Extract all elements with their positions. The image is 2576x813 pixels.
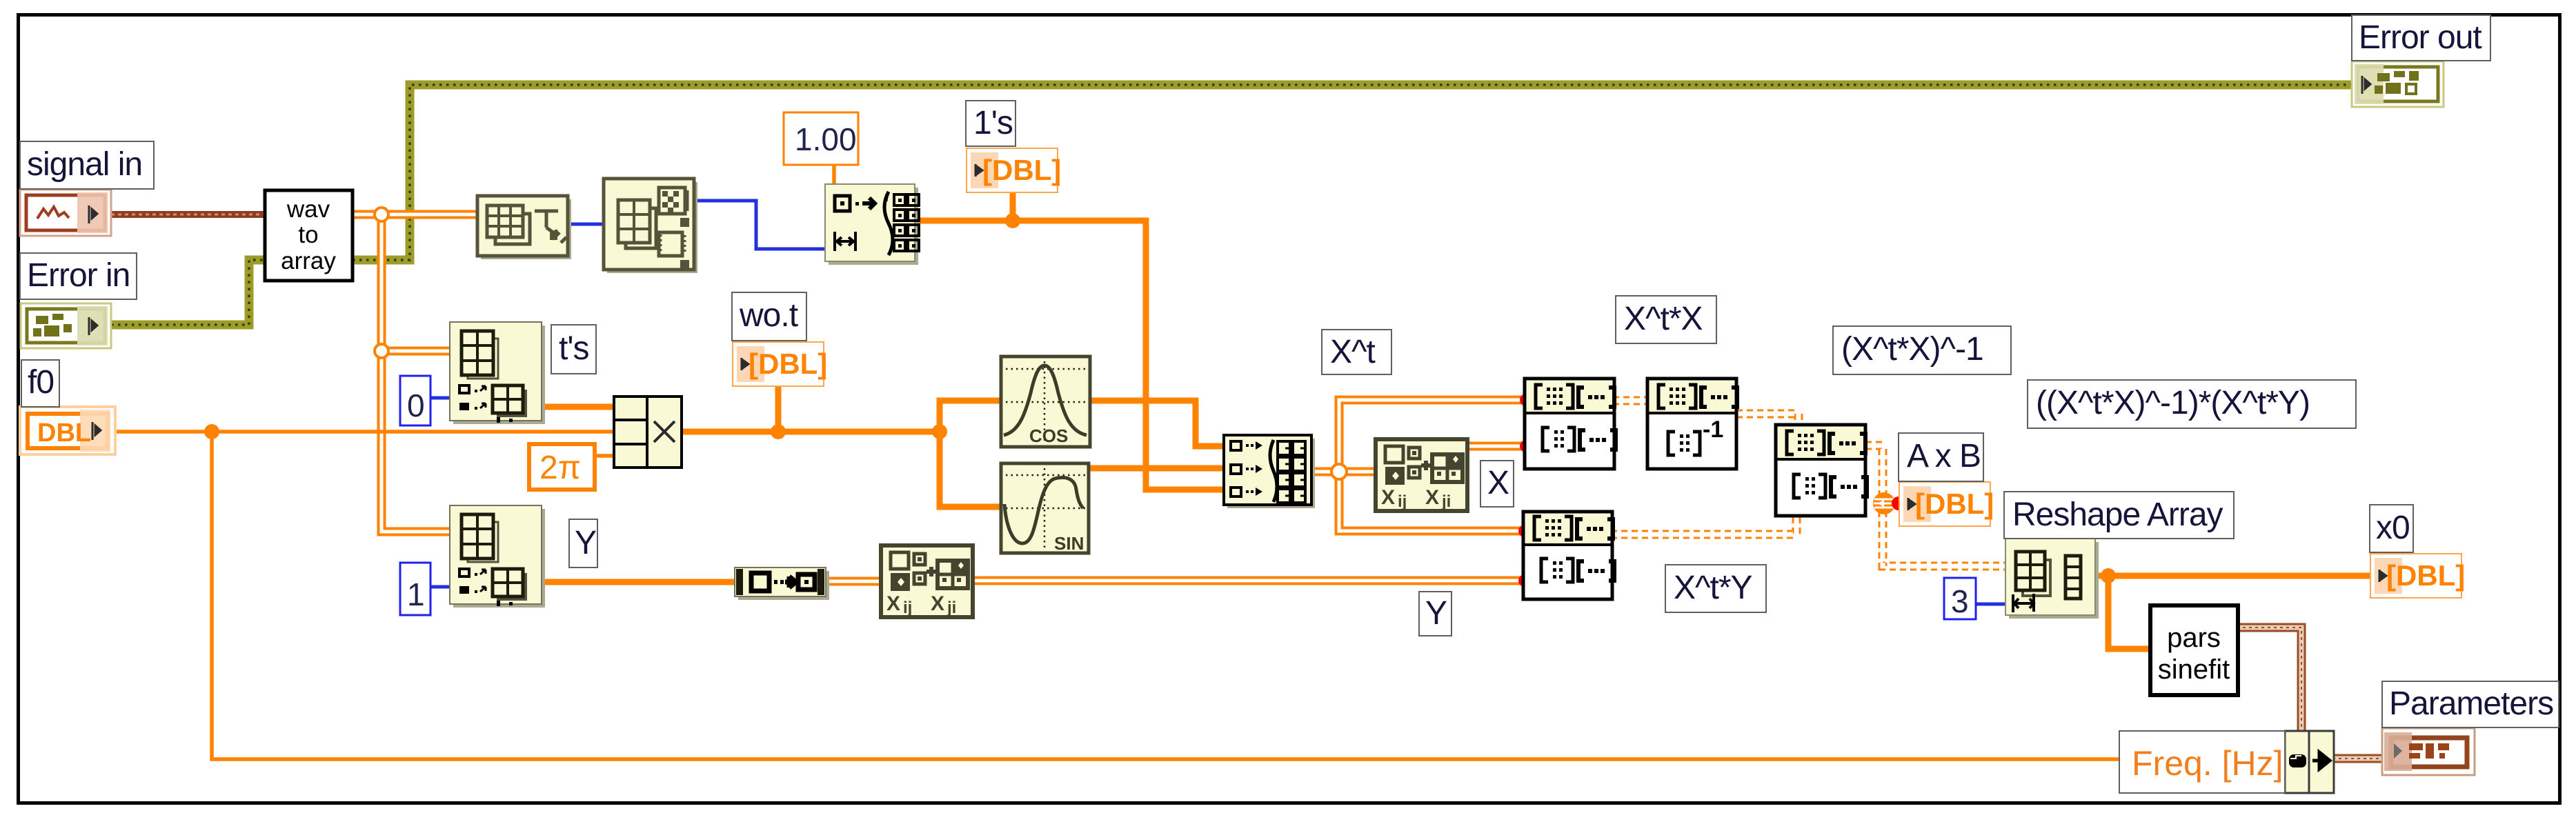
node SIN icon [1001, 463, 1089, 554]
label X^t*X [1616, 296, 1716, 343]
svg-text:Reshape Array: Reshape Array [2012, 496, 2223, 533]
wire matrix: final multiply output to A x B indicator and Reshape Array [1865, 445, 2005, 566]
wire stem 1's indicator [1010, 192, 1016, 222]
node Build Array [1224, 435, 1315, 508]
svg-text:Error in: Error in [27, 257, 130, 294]
svg-text:signal in: signal in [27, 146, 142, 183]
node A x B multiply (X^t*Y) [1523, 512, 1614, 599]
terminal 1's [DBL] indicator [967, 148, 1061, 192]
svg-text:1's: 1's [973, 105, 1013, 141]
svg-text:X^t*Y: X^t*Y [1674, 570, 1752, 606]
node junction dot under 1's [1005, 213, 1020, 228]
label signal in [20, 141, 154, 189]
node Reshape Array [2005, 539, 2099, 619]
node Transpose 2D Array (Y) [881, 545, 973, 617]
svg-text:array: array [281, 248, 336, 274]
terminal A x B [DBL] indicator [1899, 482, 1994, 526]
node hollow junction at index-array branch [375, 344, 388, 358]
subVI wav to array [265, 190, 353, 281]
svg-text:Y: Y [575, 525, 596, 561]
wire cluster: bundle to Parameters [2332, 754, 2384, 763]
svg-text:A x B: A x B [1907, 438, 1981, 474]
svg-text:wo.t: wo.t [739, 297, 798, 334]
wire 2D: transpose Y output to X^t*Y node B input [971, 576, 1523, 585]
wire 1.00 constant stem [832, 165, 836, 185]
svg-text:1: 1 [407, 576, 425, 612]
wire blue I32 icon2 to Initialize Array [694, 201, 825, 249]
label x0 [2370, 505, 2413, 552]
label X^t*Y [1665, 565, 1766, 612]
wire blue constant 0 to Index Array 1 [429, 397, 450, 400]
node compound multiply [614, 397, 682, 468]
svg-text:Freq. [Hz]: Freq. [Hz] [2132, 744, 2283, 783]
svg-text:-1: -1 [1703, 416, 1723, 443]
wire cluster: pars sinefit to bundle [2237, 628, 2301, 732]
wire f0 scalar to multiply and down along bottom to bundle [115, 432, 2285, 759]
wire blue constant 3 to Reshape Array [1974, 603, 2005, 606]
svg-text:X^t: X^t [1330, 334, 1376, 370]
svg-text:(X^t*X)^-1: (X^t*X)^-1 [1841, 331, 1983, 368]
svg-text:0: 0 [407, 388, 425, 423]
svg-text:t's: t's [559, 330, 589, 367]
wire matrix: inverse output to final multiply A [1736, 414, 1799, 426]
wire 2D: transpose X output to X^t*X node B input [1464, 442, 1525, 451]
label Y left [569, 519, 597, 568]
svg-text:COS: COS [1029, 425, 1068, 446]
node Initialize Array icon [825, 184, 919, 265]
terminal signal in (waveform control) [20, 190, 111, 236]
wire wav-to-array 2D array output to Get-Waveform icon [353, 210, 479, 219]
label Error out [2352, 15, 2490, 61]
wire SIN output to Build Array input 2 [1089, 465, 1224, 472]
node Inverse Matrix [1647, 379, 1737, 469]
wire error out: wav-to-array to Error out terminal (olive) [353, 85, 2352, 260]
node junction dot at reshape output [2101, 568, 2116, 583]
label Error in [20, 253, 137, 299]
terminal Error in (error cluster control) [21, 303, 111, 348]
svg-text:1.00: 1.00 [795, 121, 857, 157]
node Transpose 2D Array (X) [1376, 439, 1467, 511]
terminal Parameters (cluster indicator) [2382, 728, 2475, 775]
node Matrix Size icon [604, 179, 697, 273]
wire 2D: convert node to transpose Y [824, 577, 882, 586]
svg-text:Error out: Error out [2359, 19, 2481, 56]
svg-text:((X^t*X)^-1)*(X^t*Y): ((X^t*X)^-1)*(X^t*Y) [2036, 385, 2310, 421]
wire blue I32 icon1 to icon2 [568, 223, 605, 226]
svg-text:X^t*X: X^t*X [1624, 301, 1703, 337]
svg-text:3: 3 [1951, 583, 1969, 619]
label A x B [1899, 433, 1983, 481]
node A x B multiply final [1776, 425, 1867, 516]
label ((X^t*X)^-1)*(X^t*Y) [2028, 380, 2356, 428]
node Index Array 2 (Y) [450, 505, 545, 608]
node coercion red dots [1520, 394, 1532, 406]
wire matrix: X^t*X output to inverse node [1613, 397, 1647, 405]
wire Y row: Index Array 2 output to convert node [539, 579, 736, 585]
svg-text:DBL: DBL [37, 419, 91, 448]
node hollow junction at wav-to-array output [375, 208, 388, 221]
label Freq. [Hz] [2119, 731, 2285, 793]
svg-text:to: to [298, 221, 318, 248]
terminal x0 [DBL] indicator [2370, 554, 2465, 598]
svg-text:2π: 2π [539, 450, 581, 486]
wire matrix: X^t*Y output to final multiply B [1611, 514, 1796, 534]
wire t's row: Index Array 1 output to multiply [539, 404, 614, 410]
wire signal in to wav-to-array (waveform brown) [111, 211, 265, 218]
node bundle [2285, 731, 2334, 793]
wire blue constant 1 to Index Array 2 [429, 585, 450, 589]
wire Error in to wav-to-array (error cluster olive) [111, 260, 265, 325]
wire 2D array branch down to both Index Array nodes [382, 214, 450, 532]
terminal f0 (DBL control) [20, 407, 115, 454]
subVI pars sinefit [2150, 605, 2238, 695]
label 1's [966, 101, 1015, 146]
node junction dot on f0 wire [204, 424, 219, 439]
label t's [551, 325, 596, 374]
constant 1.00 [784, 112, 858, 165]
label f0 [21, 360, 59, 407]
node COS icon [1001, 357, 1090, 447]
svg-text:pars: pars [2167, 623, 2221, 653]
wire Initialize Array output (1's row) to Build Array input 3 [913, 221, 1224, 490]
svg-text:sinefit: sinefit [2158, 654, 2230, 685]
svg-text:Y: Y [1425, 595, 1447, 632]
wire w0.t product to COS / SIN branches [680, 387, 1001, 507]
svg-text:X: X [1487, 465, 1509, 501]
node hollow junction at build-array output [1331, 464, 1347, 479]
wire COS output to Build Array input 1 [1089, 401, 1224, 446]
wire Reshape output to x0 and pars sinefit [2094, 576, 2371, 649]
node junction dot cos/sin branch [932, 424, 947, 439]
constant 3 [1944, 578, 1976, 619]
node A x B multiply (X^t*X) [1525, 379, 1616, 469]
svg-text:f0: f0 [28, 364, 54, 401]
wire 2pi constant to multiply [593, 454, 614, 458]
svg-text:SIN: SIN [1054, 533, 1084, 554]
terminal wo.t [DBL] indicator [733, 342, 827, 386]
node Index Array 1 (t's) [450, 322, 545, 424]
svg-text:Parameters: Parameters [2389, 685, 2553, 722]
node junction dot under wo.t [771, 424, 786, 439]
svg-text:wav: wav [286, 196, 330, 223]
label (X^t*X)^-1 [1833, 326, 2011, 374]
wire 2D: build array X^t branches to multiply nodes and transpose X [1311, 400, 1525, 531]
constant 0 [400, 376, 430, 425]
label Reshape Array [2004, 492, 2234, 539]
node Get Waveform Components icon [477, 196, 571, 259]
label Parameters [2382, 681, 2559, 727]
svg-text:x0: x0 [2376, 510, 2410, 546]
label X [1480, 461, 1514, 507]
label Y right [1419, 592, 1452, 636]
constant 1 [400, 563, 430, 615]
node convert 1D array [735, 568, 829, 600]
terminal Error out (error cluster indicator) [2352, 61, 2444, 107]
label X^t [1322, 330, 1391, 374]
label wo.t [732, 292, 806, 341]
node striped matrix junction before A x B [1873, 492, 1895, 514]
constant 2pi [529, 444, 595, 490]
